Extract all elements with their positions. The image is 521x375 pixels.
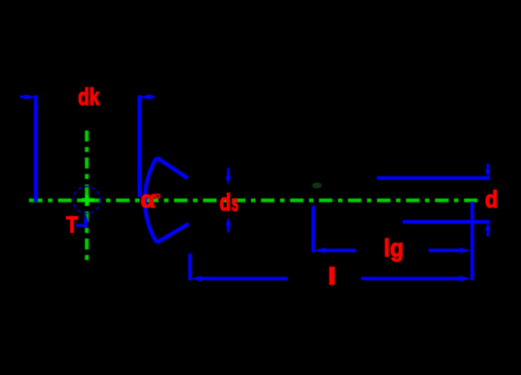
wire: ds lower arrow (points up) (227, 226, 230, 233)
wire: T leader vertical with up arrow (85, 221, 88, 228)
wire: cone upper angle line (157, 158, 188, 179)
wire: lg right extension line (thread start) (470, 202, 474, 281)
wire: lg dimension line right segment with right arrow (429, 249, 462, 252)
svg-text:lg: lg (384, 234, 404, 262)
wire: cone arc (countersink angle fan) (145, 158, 157, 243)
wire: d upper arrow (points down) (487, 163, 490, 171)
wire: T leader horizontal (76, 224, 86, 227)
svg-text:α: α (141, 187, 156, 214)
wire: dk left arrow (points right) (20, 96, 27, 99)
wire: ds upper arrow (points down) (227, 168, 230, 178)
circle: head top-view outline (dashed) (73, 187, 100, 214)
wire: upper d leader line (377, 176, 490, 180)
svg-text:dk: dk (78, 84, 100, 111)
wire: lg left extension line (311, 206, 315, 253)
svg-text:d: d (485, 187, 498, 214)
node: faint artifact smudge (312, 183, 322, 189)
wire: cone lower angle line (157, 224, 189, 243)
wire: l dimension line left segment with left arrow (198, 277, 288, 280)
wire: dk left extension line (34, 95, 38, 202)
wire: dk right extension line (138, 95, 142, 197)
svg-text:d: d (220, 190, 232, 217)
wire: l dimension line right segment with right arrow (361, 277, 462, 280)
node: horizontal centerline (axis) (29, 198, 480, 202)
wire: l left extension line (188, 254, 192, 281)
label: l (329, 267, 335, 285)
node: bright center cross at circle center (82, 198, 95, 202)
node: vertical centerline through head (85, 131, 89, 261)
wire: dk right arrow (points left) (149, 96, 155, 99)
svg-text:s: s (232, 190, 239, 216)
wire: lg dimension line left segment with left arrow (322, 249, 356, 252)
wire: lower d leader line (403, 220, 490, 224)
wire: d lower arrow (points up) (487, 230, 490, 237)
